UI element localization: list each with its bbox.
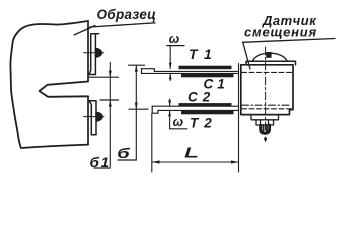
lower bolt centerline	[84, 116, 105, 118]
b1 arrow down	[109, 71, 112, 78]
lower bolt head	[96, 112, 102, 121]
label Datchik underline	[243, 39, 335, 43]
upper rod top line	[154, 70, 238, 72]
upper bolt head	[95, 48, 101, 57]
omega lower arrow down	[168, 100, 171, 106]
omega upper bracket	[167, 45, 184, 47]
b1 top tick	[89, 76, 119, 78]
b1 label underline	[94, 167, 110, 169]
slot (crack) in specimen	[40, 82, 89, 97]
sensor dome knob	[266, 52, 271, 58]
G bottom tick	[129, 108, 148, 110]
svg-text:смещения: смещения	[244, 25, 317, 40]
label Obrazets leader	[74, 26, 95, 36]
upper rod hidden line in sensor	[242, 71, 292, 73]
svg-text:Образец: Образец	[97, 7, 157, 22]
upper rod left end	[141, 69, 143, 74]
G label underline	[118, 159, 136, 161]
omega upper arrow down	[169, 63, 172, 69]
dimension b1 line	[109, 63, 111, 167]
dimension G line	[135, 65, 137, 160]
sensor body	[241, 65, 293, 115]
svg-text:ω: ω	[169, 32, 180, 46]
svg-text:б1: б1	[89, 156, 110, 171]
upper rod tab top line	[142, 69, 155, 72]
G top tick	[129, 64, 145, 66]
label Obrazets underline	[90, 23, 155, 27]
specimen right edge (upper part)	[87, 21, 89, 82]
lower rod bottom line	[158, 109, 239, 111]
sensor step 1	[251, 115, 279, 120]
label Datchik leader	[243, 42, 250, 69]
lower mounting plate	[89, 101, 96, 135]
omega lower bracket	[170, 128, 187, 130]
sensor body top line	[241, 64, 293, 66]
upper mounting plate	[89, 34, 99, 75]
dimension L line	[153, 161, 239, 163]
sensor dome	[253, 53, 288, 61]
specimen body outline	[10, 21, 88, 148]
G arrow down	[135, 103, 138, 110]
svg-text:Т1: Т1	[189, 46, 218, 62]
b1 bottom tick	[100, 99, 119, 101]
dimension L: left extension line	[151, 114, 153, 173]
dimension L: right extension line	[238, 64, 240, 173]
lower rod top line	[152, 105, 238, 107]
sensor stud inner marks	[264, 125, 267, 132]
omega dimension lower: shaft	[169, 99, 171, 129]
lower rod hidden line in sensor	[242, 104, 292, 106]
svg-text:Т2: Т2	[190, 116, 218, 131]
G arrow up	[135, 65, 138, 72]
svg-text:ω: ω	[173, 115, 184, 129]
sensor step 2	[256, 120, 274, 125]
b1 arrow up	[109, 100, 112, 107]
L arrow left	[152, 160, 159, 163]
lower rod left end	[151, 106, 153, 113]
omega lower arrow up	[168, 110, 171, 116]
sensor stud nub	[261, 125, 270, 133]
lower rod tab bottom line	[152, 110, 158, 113]
omega dimension upper: shaft	[169, 46, 171, 81]
lower rod hidden line 2 in sensor	[242, 108, 292, 110]
L arrow right	[231, 160, 238, 163]
bar T1	[179, 66, 232, 70]
sensor cap	[246, 61, 296, 65]
sensor vertical centerline	[265, 47, 267, 142]
svg-text:L: L	[184, 145, 199, 161]
sensor step 2 facet lines	[261, 120, 269, 125]
bar T2	[181, 111, 234, 114]
svg-text:б: б	[117, 145, 131, 161]
sensor centerline end dot	[264, 138, 267, 141]
bar C1	[181, 74, 234, 77]
bar C2	[179, 103, 232, 106]
svg-text:С2: С2	[188, 90, 215, 105]
specimen right edge (lower part)	[87, 96, 89, 144]
upper rod bottom line	[142, 72, 239, 74]
upper bolt centerline	[84, 52, 104, 54]
omega upper arrow up	[169, 73, 172, 79]
